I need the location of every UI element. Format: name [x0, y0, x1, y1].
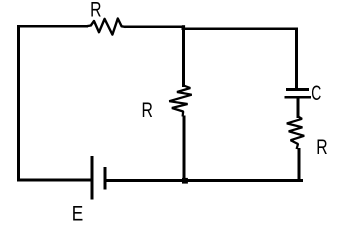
wire: top segment between R1 and middle node: [124, 25, 185, 28]
node A: top middle junction: [182, 25, 185, 28]
resistor R2 (middle branch): [169, 86, 192, 117]
battery E: long plate: [91, 156, 94, 200]
wire: capacitor to resistor R3: [297, 97, 300, 118]
svg-text:R: R: [142, 98, 153, 122]
svg-text:C: C: [311, 81, 321, 105]
svg-text:E: E: [72, 203, 83, 226]
wire: bottom segment left of battery: [17, 179, 92, 182]
svg-text:R: R: [90, 0, 101, 21]
node B: bottom middle junction nub: [182, 178, 188, 184]
wire: top segment left of resistor R1: [17, 25, 88, 28]
wire: middle branch lower: [182, 116, 185, 182]
battery E: short plate: [104, 167, 107, 189]
wire: bottom segment right of battery: [105, 179, 303, 182]
wire: left side: [17, 25, 20, 182]
wire: right branch upper: [295, 27, 298, 89]
wire: top segment right of middle node: [182, 27, 298, 30]
capacitor C: top plate: [286, 88, 309, 91]
capacitor C: bottom plate: [284, 96, 310, 99]
svg-text:R: R: [316, 135, 327, 159]
wire: middle branch upper: [182, 27, 185, 88]
resistor R1 (top): [86, 19, 126, 35]
wire: right branch lower: [298, 148, 301, 181]
resistor R3 (right branch): [287, 117, 304, 150]
